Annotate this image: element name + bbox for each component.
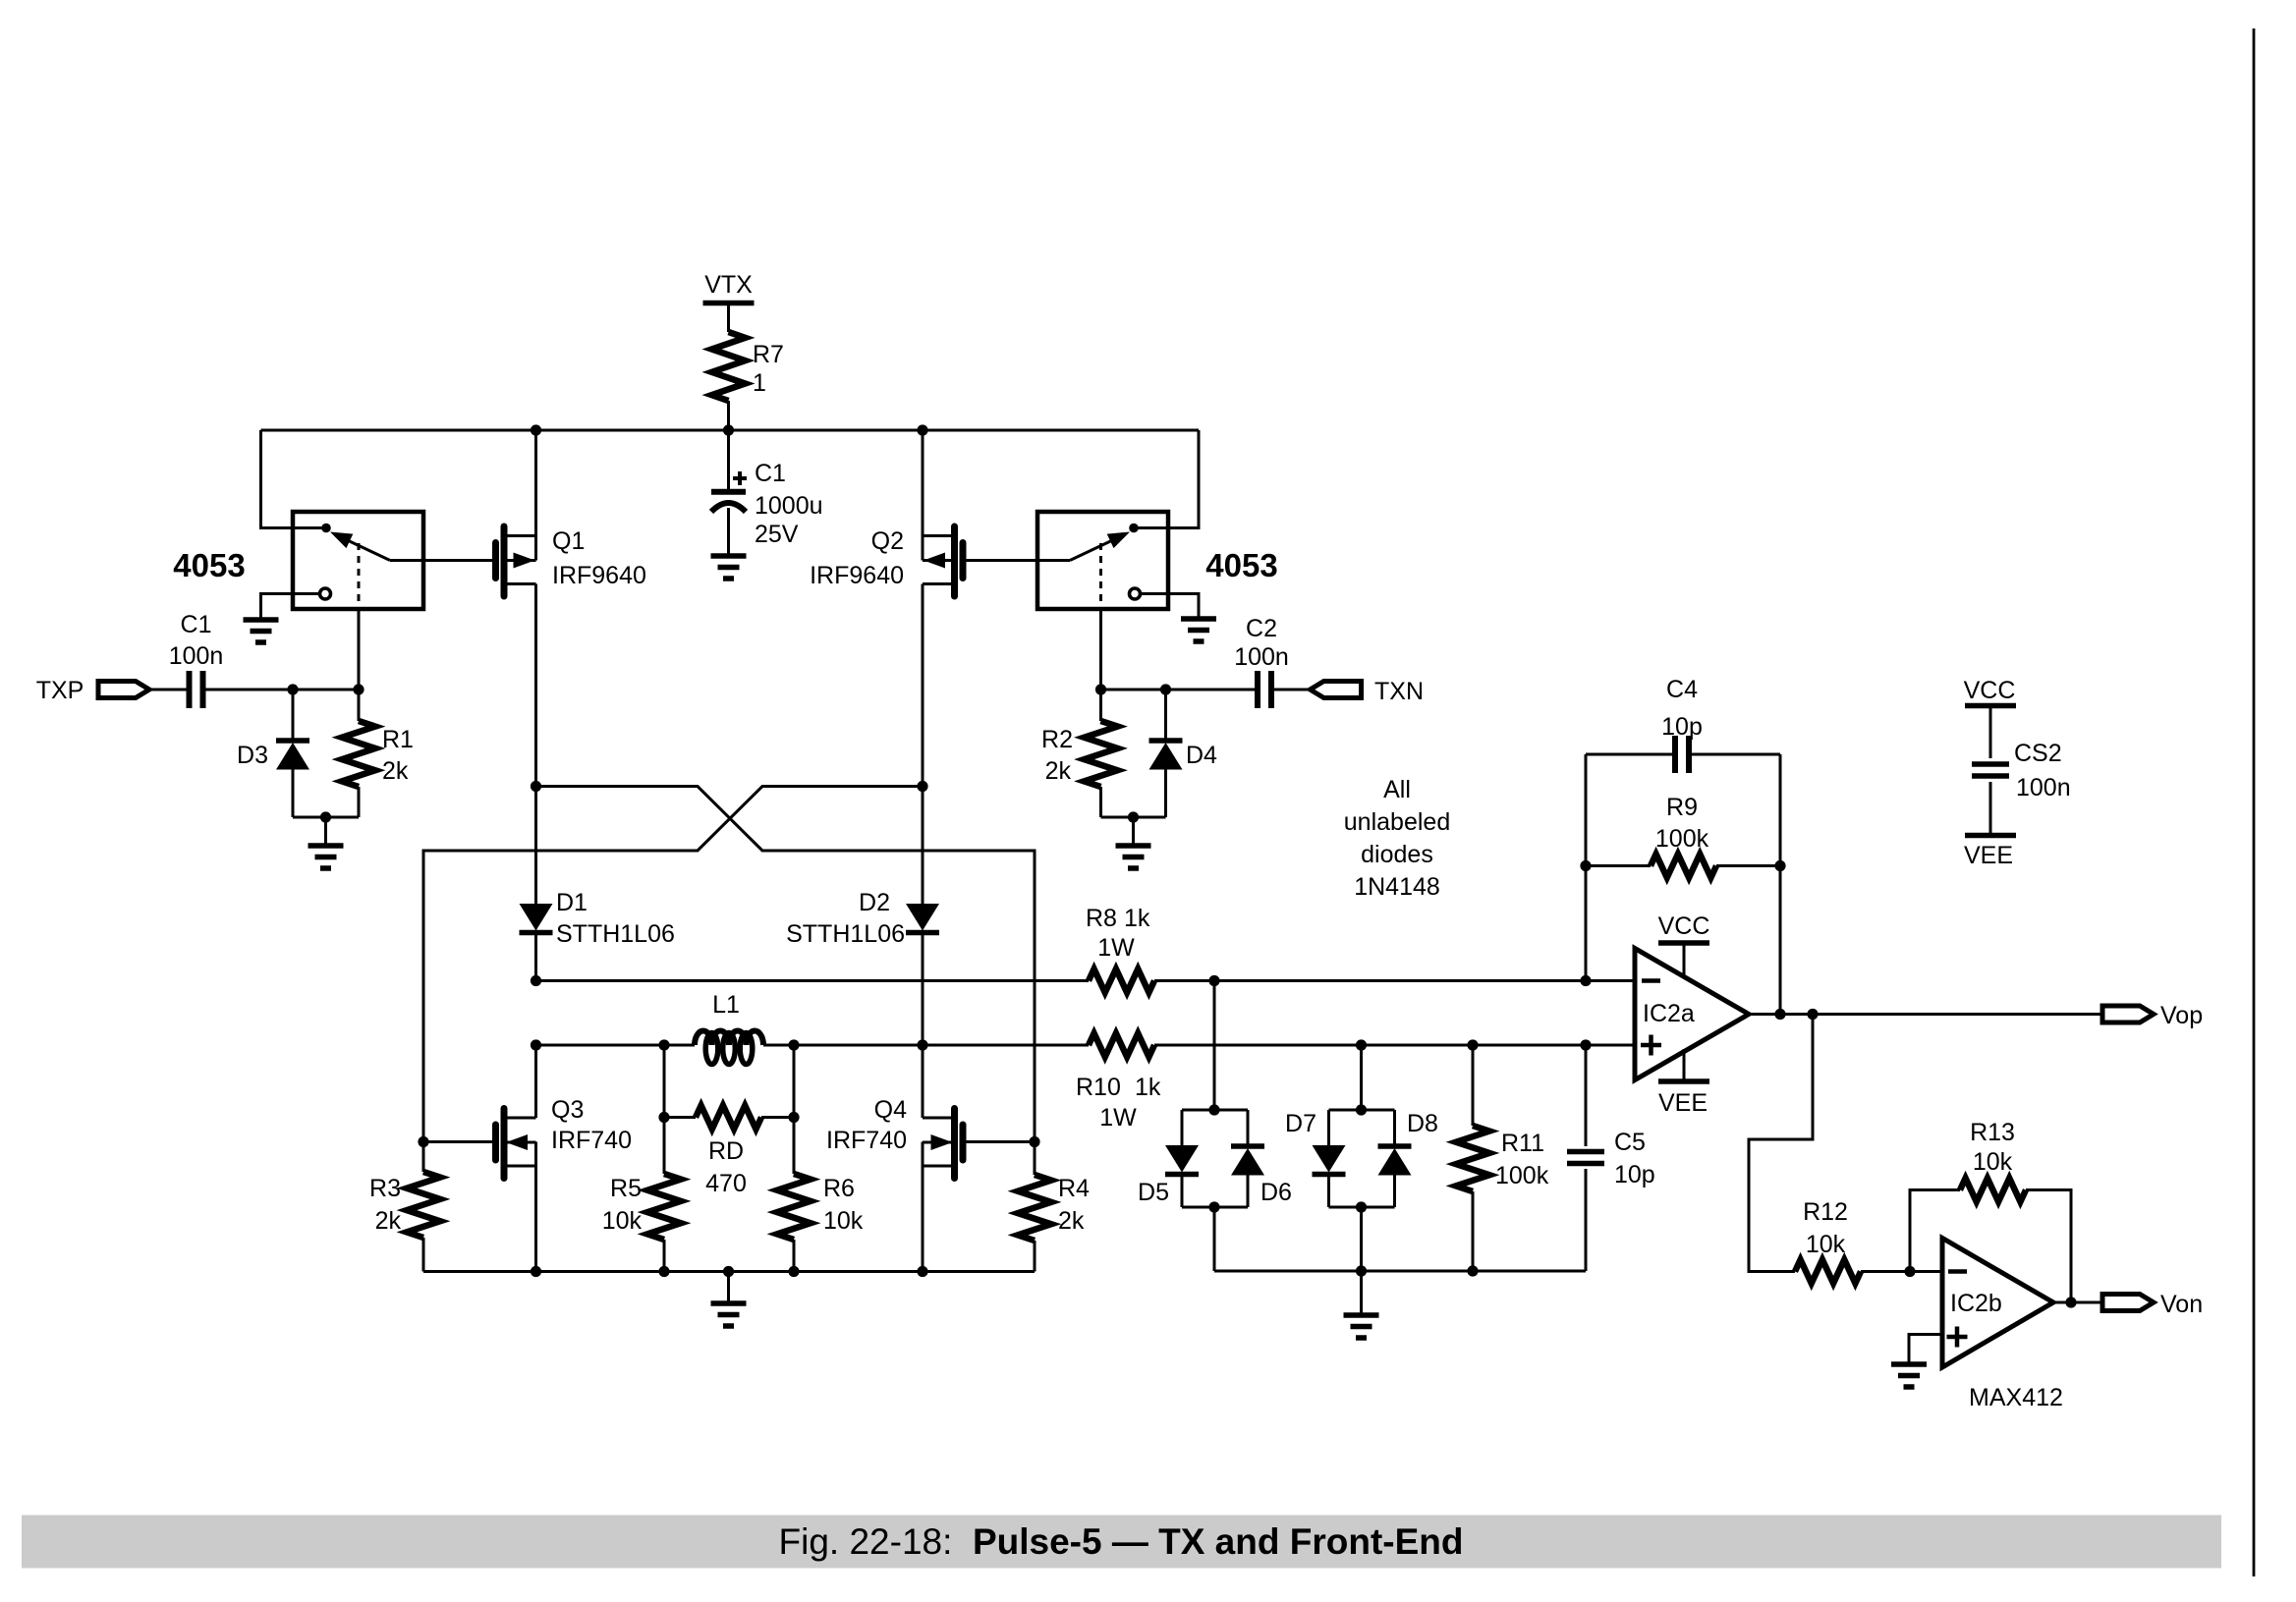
junction TXN node D4 — [1160, 684, 1171, 694]
svg-text:R11: R11 — [1501, 1130, 1544, 1157]
resistor R5 10k — [602, 1118, 681, 1272]
junction RD right — [788, 1112, 799, 1123]
junction L1 row right — [917, 1039, 927, 1050]
note all unlabeled diodes 1N4148 — [1344, 776, 1450, 901]
svg-text:D6: D6 — [1260, 1179, 1292, 1206]
transistor Q1 — [496, 526, 646, 596]
diode D4 — [1149, 690, 1218, 817]
resistor R4 2k — [1018, 1142, 1090, 1272]
junction rail Q4 — [917, 1266, 927, 1277]
svg-text:unlabeled: unlabeled — [1344, 808, 1450, 836]
analog switch box 4053 (left) — [173, 512, 423, 609]
junction TXP node R1 — [353, 684, 364, 694]
junction R8 D5 node — [1208, 975, 1219, 986]
caption bar — [22, 1516, 2221, 1569]
svg-text:100n: 100n — [2016, 774, 2071, 801]
resistor R1 — [342, 690, 414, 817]
svg-text:TXP: TXP — [36, 677, 84, 704]
power flag VEE — [1964, 836, 2016, 870]
resistor R9 100k — [1586, 794, 1780, 878]
svg-text:4053: 4053 — [173, 547, 245, 583]
junction L1 right lead — [788, 1039, 799, 1050]
svg-text:1: 1 — [753, 369, 766, 397]
svg-text:10k: 10k — [1806, 1231, 1846, 1258]
junction D5/D6 top — [1208, 1104, 1219, 1115]
resistor R7 — [712, 332, 784, 401]
power flag VCC — [1964, 677, 2016, 706]
wire R3 to Q3 gate — [423, 1140, 492, 1143]
switch control dashed line (left 4053) — [358, 543, 361, 609]
svg-text:IRF9640: IRF9640 — [552, 562, 646, 589]
svg-text:R2: R2 — [1041, 726, 1073, 753]
svg-text:R9: R9 — [1666, 794, 1698, 821]
svg-text:RD: RD — [708, 1137, 744, 1165]
junction rail R5 — [658, 1266, 669, 1277]
junction Q4 gate R4 — [1029, 1136, 1039, 1147]
switch control dashed line (right 4053) — [1099, 543, 1102, 609]
wire TXN node to C2 — [1101, 689, 1259, 691]
svg-text:1k: 1k — [1124, 905, 1150, 932]
svg-text:C1: C1 — [181, 611, 212, 638]
svg-text:4053: 4053 — [1205, 547, 1277, 583]
ground below right 4053 — [1181, 619, 1216, 641]
svg-text:1W: 1W — [1097, 934, 1135, 962]
wire L1 to R10 — [794, 1044, 1089, 1047]
junction RD left — [658, 1112, 669, 1123]
top supply rail wire — [261, 429, 1200, 432]
resistor R8 1k 1W — [1086, 905, 1154, 993]
junction D3/R1 ground node — [320, 811, 331, 822]
wire L1 right to RD — [793, 1045, 796, 1118]
wire R8 to IC2a inverting input — [1154, 979, 1635, 982]
ground below left 4053 — [244, 620, 279, 642]
wire Q3 drain — [534, 1045, 537, 1118]
svg-text:100n: 100n — [1234, 643, 1289, 671]
wire open pin to ground (right 4053) — [1141, 594, 1200, 620]
clamp lower rail wire — [1214, 1270, 1586, 1273]
wire crossover Q1 to right — [536, 787, 1036, 1142]
junction top rail at R7 — [723, 424, 734, 435]
wire rail to switch box 1 — [261, 430, 327, 528]
svg-text:1000u: 1000u — [755, 492, 823, 520]
IC2a VEE pin — [1658, 1049, 1709, 1117]
svg-text:R3: R3 — [369, 1175, 401, 1202]
junction IC2b output — [2065, 1297, 2076, 1307]
svg-text:Q3: Q3 — [551, 1096, 584, 1124]
svg-text:R5: R5 — [610, 1175, 642, 1202]
svg-text:D5: D5 — [1138, 1179, 1169, 1206]
wire crossover Q2 to left — [423, 787, 923, 1142]
wire C4 left leg — [1585, 754, 1588, 981]
svg-text:All: All — [1383, 776, 1411, 803]
svg-text:diodes: diodes — [1361, 841, 1433, 868]
svg-text:STTH1L06: STTH1L06 — [556, 920, 675, 948]
svg-text:R6: R6 — [823, 1175, 855, 1202]
op-amp IC2b — [1942, 1239, 2063, 1412]
port Vop — [2102, 1002, 2203, 1029]
svg-text:25V: 25V — [755, 521, 799, 548]
capacitor C4 10p — [1586, 676, 1780, 773]
wire CS2 to VEE — [1989, 782, 1992, 836]
svg-text:1W: 1W — [1099, 1104, 1137, 1132]
capacitor C1 100n — [169, 611, 224, 708]
resistor R3 2k — [369, 1142, 440, 1272]
IC2a VCC pin — [1658, 912, 1710, 975]
wire switch to Q2 gate — [967, 559, 1071, 562]
wire Q1 drain (rail to arrow) — [534, 430, 537, 561]
clamp pair D5/D6 frame — [1182, 1110, 1248, 1207]
svg-text:470: 470 — [705, 1170, 747, 1197]
junction R13 tap — [1904, 1266, 1915, 1277]
ground below bridge — [711, 1303, 747, 1326]
junction L1 row left — [531, 1039, 541, 1050]
svg-text:Q2: Q2 — [871, 527, 904, 555]
junction plus node R11 — [1467, 1039, 1478, 1050]
svg-text:TXN: TXN — [1374, 678, 1424, 705]
wire plus node down to D7/D8 — [1360, 1045, 1363, 1110]
diode D5 — [1138, 1145, 1199, 1206]
switch lever (right 4053) — [1070, 532, 1130, 561]
wire IC2b output to Von — [2053, 1301, 2101, 1304]
svg-text:D4: D4 — [1186, 742, 1217, 769]
wire C1 to switch node — [203, 689, 360, 691]
wire R2 D4 to ground — [1101, 817, 1166, 846]
op-amp IC2a — [1635, 949, 1749, 1080]
svg-text:IRF740: IRF740 — [551, 1127, 632, 1154]
wire open pin to ground (left 4053) — [261, 594, 320, 621]
svg-text:C2: C2 — [1246, 615, 1277, 642]
svg-text:1k: 1k — [1135, 1074, 1161, 1101]
wire IC2a output to Vop — [1752, 1013, 2103, 1016]
wire D5/D6 to lower rail — [1213, 1207, 1216, 1271]
inductor L1 — [664, 991, 794, 1065]
switch open pin (right 4053) — [1130, 588, 1141, 599]
wire Q2 source down — [922, 584, 924, 787]
wire R7 to rail — [727, 401, 730, 430]
svg-text:10p: 10p — [1661, 713, 1703, 741]
resistor R11 100k — [1456, 1045, 1549, 1271]
svg-text:1N4148: 1N4148 — [1354, 873, 1440, 901]
svg-text:MAX412: MAX412 — [1969, 1384, 2063, 1411]
svg-text:10k: 10k — [602, 1207, 643, 1235]
power flag VTX — [703, 271, 755, 304]
wire TXP to C1 — [149, 689, 190, 691]
junction D7/D8 top — [1356, 1104, 1367, 1115]
resistor R6 10k — [777, 1118, 864, 1272]
wire minus node down to D5/D6 — [1213, 981, 1216, 1111]
svg-text:R10: R10 — [1076, 1074, 1121, 1101]
wire Q4 source to rail — [922, 1142, 924, 1272]
capacitor C1 electrolytic — [711, 460, 823, 548]
wire R10 to IC2a noninverting input — [1154, 1044, 1635, 1047]
resistor RD 470 — [664, 1106, 794, 1198]
diode D3 — [237, 690, 309, 817]
svg-text:IC2b: IC2b — [1950, 1290, 2002, 1317]
capacitor C5 10p — [1567, 1045, 1655, 1271]
wire Q4 gate to R4 — [963, 1140, 1035, 1143]
diode D1 STTH1L06 — [520, 787, 675, 981]
switch open pin (left 4053) — [320, 588, 331, 599]
svg-text:2k: 2k — [1045, 757, 1072, 785]
wire D1 node to L1 — [536, 1044, 665, 1047]
wire C1 to ground — [727, 508, 730, 556]
junction Q3 gate R3 — [418, 1136, 428, 1147]
svg-text:VCC: VCC — [1658, 912, 1710, 940]
resistor R13 10k — [1910, 1119, 2071, 1302]
svg-text:Q1: Q1 — [552, 527, 585, 555]
resistor R2 2k — [1041, 690, 1117, 817]
junction plus node C5 — [1580, 1039, 1591, 1050]
svg-text:10k: 10k — [1973, 1148, 2013, 1176]
svg-text:D8: D8 — [1407, 1110, 1438, 1137]
junction D5/D6 bottom — [1208, 1201, 1219, 1212]
wire VCC to CS2 — [1989, 706, 1992, 759]
wire VTX to R7 — [727, 304, 730, 333]
svg-text:C4: C4 — [1666, 676, 1698, 703]
bridge bottom rail wire — [423, 1270, 1035, 1273]
svg-text:IC2a: IC2a — [1643, 1000, 1695, 1027]
wire Q3 source to rail — [534, 1142, 537, 1272]
wire switch to Q1 gate — [390, 559, 492, 562]
junction rail Q3 — [531, 1266, 541, 1277]
wire D7/D8 to lower rail — [1360, 1207, 1363, 1271]
page border line (right edge) — [2253, 28, 2256, 1576]
svg-text:R1: R1 — [382, 726, 414, 753]
wire R12 to IC2b inverting input — [1861, 1270, 1942, 1273]
svg-text:STTH1L06: STTH1L06 — [786, 920, 905, 948]
junction Q2 drain crossover — [917, 781, 927, 792]
svg-text:D3: D3 — [237, 742, 268, 769]
svg-text:IRF740: IRF740 — [826, 1127, 907, 1154]
junction TXP node D3 — [287, 684, 298, 694]
resistor R10 1k 1W — [1076, 1033, 1161, 1132]
svg-text:2k: 2k — [382, 757, 409, 785]
wire switch to TXP node — [358, 609, 361, 690]
analog switch box 4053 (right) — [1037, 512, 1278, 609]
svg-text:R8: R8 — [1086, 905, 1117, 932]
junction rail ground — [723, 1266, 734, 1277]
port TXP — [36, 677, 149, 704]
svg-text:R7: R7 — [753, 341, 784, 368]
svg-text:100k: 100k — [1655, 825, 1709, 853]
resistor R12 10k — [1795, 1198, 1861, 1284]
transistor Q4 — [826, 1096, 963, 1179]
wire Q4 drain — [922, 1045, 924, 1118]
junction Q1 drain crossover — [531, 781, 541, 792]
svg-text:VTX: VTX — [704, 271, 753, 299]
svg-text:100k: 100k — [1495, 1162, 1549, 1189]
junction R9 left — [1580, 860, 1591, 871]
wire rail to C1 — [727, 430, 730, 491]
wire rail to ground — [727, 1272, 730, 1304]
svg-text:VEE: VEE — [1964, 842, 2013, 869]
svg-text:D7: D7 — [1285, 1110, 1316, 1137]
svg-text:100n: 100n — [169, 642, 224, 670]
transistor Q3 — [496, 1096, 632, 1179]
svg-text:C5: C5 — [1614, 1129, 1646, 1156]
junction R2/D4 ground node — [1128, 811, 1139, 822]
junction plus node D7 — [1356, 1039, 1367, 1050]
switch pin dot (right 4053) — [1129, 524, 1139, 533]
ground below D3/R1 — [308, 846, 344, 868]
svg-text:CS2: CS2 — [2014, 740, 2062, 767]
junction output C4 leg — [1774, 1009, 1785, 1020]
switch pin dot (left 4053) — [321, 524, 331, 533]
junction D7/D8 bottom — [1356, 1201, 1367, 1212]
junction lower rail R11 — [1467, 1265, 1478, 1276]
svg-text:10k: 10k — [823, 1207, 864, 1235]
svg-text:VCC: VCC — [1964, 677, 2016, 704]
diode D7 — [1285, 1110, 1345, 1175]
port TXN — [1311, 678, 1425, 705]
wire C4 right leg to output — [1779, 754, 1782, 1015]
diode D8 — [1378, 1110, 1438, 1176]
wire Q2 drain (rail to arrow) — [922, 430, 924, 561]
junction lower rail ground — [1356, 1265, 1367, 1276]
wire IC2b noninverting to ground — [1909, 1335, 1942, 1365]
svg-text:R13: R13 — [1970, 1119, 2015, 1146]
wire Q1 source down — [534, 584, 537, 787]
junction L1 left lead — [658, 1039, 669, 1050]
diode D2 STTH1L06 — [786, 787, 939, 1046]
switch lever (left 4053) — [330, 532, 390, 561]
transistor Q2 — [810, 526, 963, 596]
capacitor CS2 100n — [1972, 740, 2071, 801]
junction top rail at Q2 — [917, 424, 927, 435]
svg-text:Vop: Vop — [2160, 1002, 2203, 1029]
wire D1 node to R8 — [536, 979, 1090, 982]
junction minus node C4 leg — [1580, 975, 1591, 986]
ground below R2/D4 — [1116, 846, 1151, 868]
wire switch to TXN node — [1099, 609, 1102, 690]
svg-text:L1: L1 — [712, 991, 740, 1019]
junction R9 right — [1774, 860, 1785, 871]
svg-text:2k: 2k — [375, 1207, 402, 1235]
junction TXN node R2 — [1095, 684, 1106, 694]
svg-text:Fig. 22-18: Pulse-5 — TX and: Fig. 22-18: Pulse-5 — TX and Front-End — [779, 1521, 1464, 1562]
svg-text:10p: 10p — [1614, 1161, 1655, 1188]
svg-text:C1: C1 — [755, 460, 786, 487]
port Von — [2102, 1291, 2203, 1318]
svg-text:Von: Von — [2160, 1291, 2203, 1318]
wire lower rail to ground — [1360, 1271, 1363, 1315]
svg-text:Q4: Q4 — [874, 1096, 907, 1124]
wire output to R12 — [1749, 1015, 1813, 1272]
svg-text:IRF9640: IRF9640 — [810, 562, 904, 589]
wire C2 to TXN port — [1271, 689, 1311, 691]
diode D6 — [1231, 1146, 1292, 1206]
svg-text:R4: R4 — [1058, 1175, 1090, 1202]
clamp pair D7/D8 frame — [1329, 1110, 1395, 1207]
svg-text:D2: D2 — [859, 889, 890, 916]
junction top rail at Q1 — [531, 424, 541, 435]
svg-text:D1: D1 — [556, 889, 588, 916]
wire D3 R1 to ground — [293, 817, 359, 846]
svg-text:R12: R12 — [1803, 1198, 1848, 1226]
ground below clamp network — [1344, 1315, 1379, 1338]
junction rail R6 — [788, 1266, 799, 1277]
junction output to IC2b — [1807, 1009, 1818, 1020]
svg-text:2k: 2k — [1058, 1207, 1085, 1235]
wire rail to switch box 2 — [1134, 430, 1199, 528]
wire L1 left to RD — [663, 1045, 666, 1118]
capacitor C2 100n — [1234, 615, 1289, 708]
svg-text:VEE: VEE — [1658, 1089, 1708, 1117]
ground at IC2b input — [1891, 1364, 1927, 1387]
junction D1 R8 node — [531, 975, 541, 986]
ground below C1 — [711, 556, 747, 579]
